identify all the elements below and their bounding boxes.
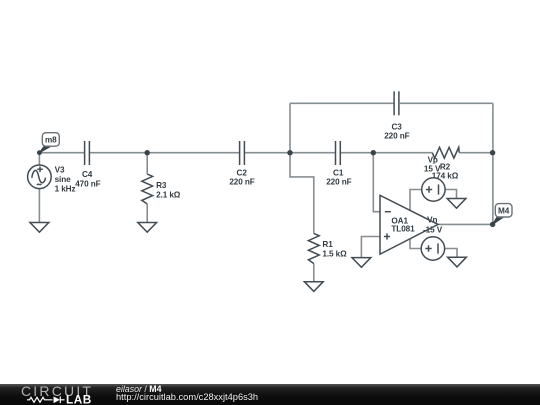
node at V3 top xyxy=(37,150,42,155)
svg-text:Vp: Vp xyxy=(428,156,438,165)
wire V3 bottom lead to ground xyxy=(38,189,40,223)
wire C3 to top right corner xyxy=(400,102,493,104)
wire R3 top lead xyxy=(146,153,148,174)
svg-text:470 nF: 470 nF xyxy=(75,180,100,189)
svg-text:220 nF: 220 nF xyxy=(229,178,254,187)
svg-text:220 nF: 220 nF xyxy=(326,178,351,187)
voltage source Vp labels xyxy=(424,156,441,174)
voltage source Vp xyxy=(422,178,445,201)
ground below R3 xyxy=(138,223,157,233)
svg-text:m8: m8 xyxy=(45,136,57,145)
svg-text:C1: C1 xyxy=(333,168,344,177)
svg-text:R2: R2 xyxy=(440,162,451,171)
svg-text:sine: sine xyxy=(55,175,72,184)
wire R2 to right vertical xyxy=(459,152,492,154)
wire C4 to R3 node to C2 xyxy=(90,152,239,154)
capacitor C1 xyxy=(326,141,351,187)
svg-text:http://circuitlab.com/c28xxjt4: http://circuitlab.com/c28xxjt4p6s3h xyxy=(116,392,258,402)
resistor R2 xyxy=(432,147,459,180)
wire node A down to R1 xyxy=(290,153,314,234)
wire Vp right lead to ground xyxy=(445,190,456,199)
footer logo squiggle resistor and diode xyxy=(27,397,65,404)
wire Vn left lead to op-amp V- pin xyxy=(410,239,421,249)
voltage source Vn xyxy=(421,237,444,260)
wire op-amp noninverting input to ground xyxy=(361,237,380,258)
svg-text:M4: M4 xyxy=(498,207,510,216)
wire right vertical drop xyxy=(492,103,494,224)
op-amp OA1 xyxy=(380,195,438,254)
svg-text:R3: R3 xyxy=(156,181,167,190)
ground below V3 xyxy=(30,223,49,233)
net flag M4 xyxy=(493,204,512,225)
svg-text:C2: C2 xyxy=(237,168,248,177)
capacitor C3 xyxy=(384,91,409,140)
wire main horizontal V3 to C4 xyxy=(39,152,84,154)
svg-text:C4: C4 xyxy=(82,170,93,179)
svg-text:220 nF: 220 nF xyxy=(384,132,409,141)
wire node B down to op-amp inverting input xyxy=(373,153,380,212)
svg-text:1.5 kΩ: 1.5 kΩ xyxy=(322,249,347,258)
wire op-amp output to M4 junction xyxy=(438,223,493,225)
svg-text:C3: C3 xyxy=(391,122,402,131)
footer bar xyxy=(0,384,540,405)
wire R1 bottom to ground xyxy=(313,264,315,282)
capacitor C4 xyxy=(75,141,100,189)
voltage source V3 xyxy=(28,165,76,193)
wire Vp left lead to op-amp V+ pin xyxy=(410,190,422,211)
capacitor C2 xyxy=(229,141,254,187)
ground below op-amp noninverting input xyxy=(352,258,371,268)
ground right of Vp xyxy=(447,199,466,209)
voltage source Vn labels (under op-amp edge) xyxy=(423,215,443,234)
svg-text:R1: R1 xyxy=(322,240,333,249)
wire V3 top lead xyxy=(38,153,40,165)
node A junction xyxy=(287,150,292,155)
ground right of Vn xyxy=(448,257,467,267)
node B junction xyxy=(371,150,376,155)
wire feedback riser at node A xyxy=(289,103,291,152)
wire C2 to node A to C1 xyxy=(245,152,335,154)
svg-text:2.1 kΩ: 2.1 kΩ xyxy=(156,190,181,199)
ground below R1 xyxy=(304,282,323,292)
resistor R1 xyxy=(308,233,347,263)
wire C1 to node B to R2 xyxy=(341,152,433,154)
wire top feedback run to C3 xyxy=(290,102,393,104)
svg-text:V3: V3 xyxy=(55,166,65,175)
node at M4 output junction xyxy=(490,222,495,227)
wire Vn right lead to ground xyxy=(445,249,457,258)
node at R3 junction xyxy=(145,150,150,155)
svg-text:LAB: LAB xyxy=(66,393,92,405)
resistor R3 xyxy=(142,174,181,204)
svg-text:15 V: 15 V xyxy=(424,164,441,173)
svg-text:TL081: TL081 xyxy=(391,225,415,234)
svg-text:1 kHz: 1 kHz xyxy=(55,184,76,193)
node at right vertical xyxy=(490,150,495,155)
wire R3 bottom lead to ground xyxy=(146,204,148,223)
net flag m8 xyxy=(40,133,60,153)
